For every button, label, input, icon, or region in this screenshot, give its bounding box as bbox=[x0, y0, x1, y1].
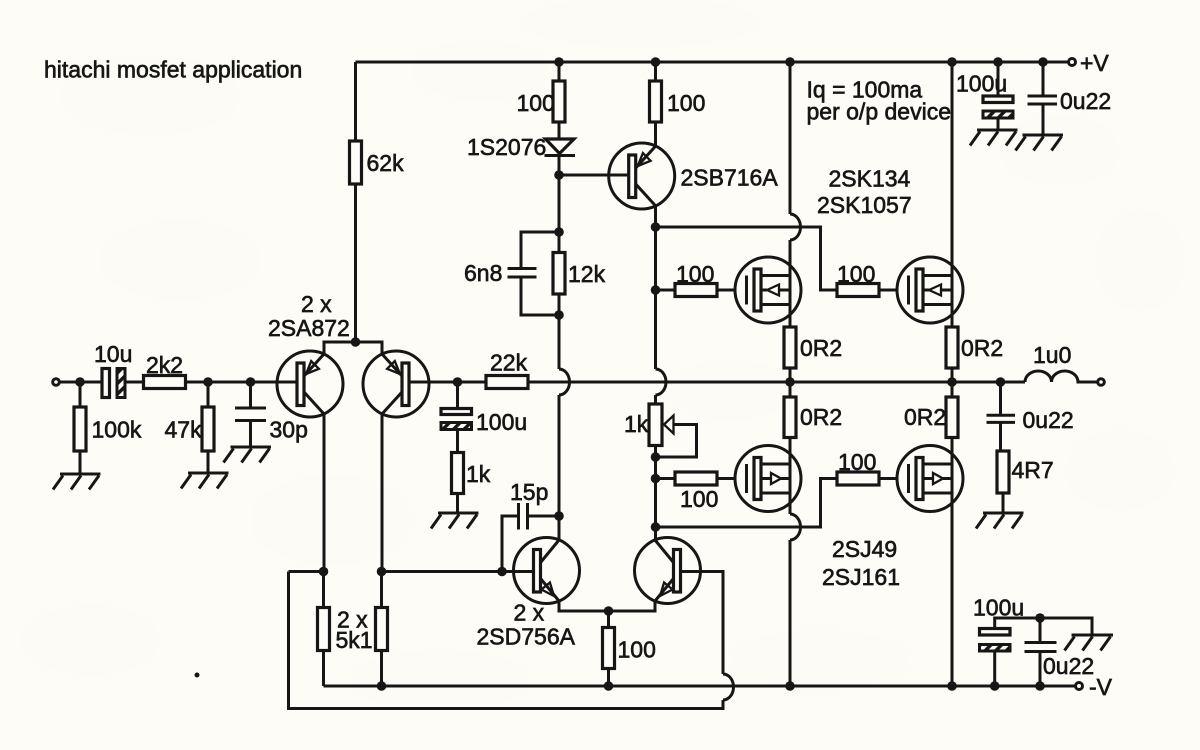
junction dots column 655 bbox=[651, 222, 661, 232]
svg-text:5k1: 5k1 bbox=[336, 627, 373, 653]
inductor 1u0 bbox=[1025, 371, 1097, 382]
node input terminal bbox=[53, 379, 60, 386]
wire TR drain column bbox=[951, 62, 954, 327]
junction dots VAS column bbox=[554, 170, 564, 180]
capacitor 100u at -V electrolytic bbox=[995, 618, 1092, 686]
wire -V bottom rail bbox=[324, 685, 1075, 688]
resistor 1k feedback bbox=[452, 453, 464, 494]
svg-text:15p: 15p bbox=[510, 479, 548, 505]
hop column 655 over output line bbox=[656, 369, 667, 395]
svg-text:47k: 47k bbox=[165, 417, 203, 443]
ground under 1k bbox=[431, 513, 479, 529]
ground under +V 0u22 bbox=[1016, 135, 1064, 151]
resistor 100 (above diode) bbox=[558, 62, 561, 81]
ground under 30p bbox=[224, 447, 272, 463]
svg-text:100: 100 bbox=[680, 486, 718, 512]
resistor 100 gate BR bbox=[837, 472, 879, 485]
wire TR source + resistor 0R2 bbox=[951, 368, 954, 382]
wire collector node to TR mosfet gate (y227) bbox=[656, 227, 838, 290]
resistor 47k bbox=[207, 382, 210, 473]
svg-text:1k: 1k bbox=[624, 411, 649, 437]
mosfet TL 2SK134 bbox=[735, 257, 801, 323]
resistor 100 gate TL bbox=[675, 284, 717, 297]
node -V terminal bbox=[1076, 683, 1083, 690]
capacitor 10u electrolytic bbox=[102, 369, 110, 398]
capacitor 0u22 zobel bbox=[999, 382, 1002, 451]
capacitor 100u at +V electrolytic bbox=[997, 62, 1000, 130]
stray ink dot bbox=[195, 673, 200, 678]
wire TL source + resistor 0R2 bbox=[789, 368, 792, 382]
svg-text:100: 100 bbox=[667, 90, 705, 116]
svg-text:2SD756A: 2SD756A bbox=[477, 624, 576, 650]
mosfet TR 2SK1057 bbox=[897, 257, 963, 323]
svg-text:1k: 1k bbox=[466, 461, 491, 487]
svg-text:62k: 62k bbox=[367, 150, 405, 176]
wire input line left bbox=[60, 381, 103, 384]
svg-text:100: 100 bbox=[676, 261, 714, 287]
ground under +V 100u bbox=[970, 130, 1018, 146]
wire emitter link 2SA872 pair bbox=[324, 342, 382, 354]
resistor 100k bbox=[79, 382, 82, 474]
transistor Q1 2SA872 (left, PNP) bbox=[277, 351, 343, 417]
wire Q5 emitters join bbox=[559, 601, 655, 611]
mosfet BR 2SJ161 bbox=[897, 446, 963, 512]
wire link to BR gate bbox=[656, 479, 838, 528]
wire +V top rail bbox=[356, 61, 1068, 64]
svg-text:22k: 22k bbox=[490, 350, 528, 376]
svg-text:0u22: 0u22 bbox=[1043, 653, 1094, 679]
resistor 100 emitter bbox=[607, 611, 610, 628]
svg-text:2SB716A: 2SB716A bbox=[681, 165, 779, 191]
wire TL mosfet gate bbox=[656, 289, 676, 292]
capacitor 6n8 branch bbox=[521, 232, 559, 315]
resistor 4R7 bbox=[997, 451, 1009, 493]
svg-text:10u: 10u bbox=[94, 341, 132, 367]
transistor 2SB716A (PNP) bbox=[609, 143, 675, 209]
wire BR drain down bbox=[951, 438, 954, 687]
wire BL source + resistor 0R2 bbox=[789, 382, 792, 397]
svg-text:4R7: 4R7 bbox=[1012, 457, 1054, 483]
junction dots -V rail bbox=[377, 681, 387, 691]
svg-text:1S2076: 1S2076 bbox=[467, 134, 546, 160]
junction dot -V cap wire bbox=[1035, 613, 1045, 623]
svg-text:100u: 100u bbox=[476, 409, 527, 435]
svg-text:0u22: 0u22 bbox=[1060, 88, 1111, 114]
svg-text:100u: 100u bbox=[973, 595, 1024, 621]
ground under 47k bbox=[181, 473, 229, 489]
svg-text:100: 100 bbox=[838, 449, 876, 475]
svg-text:6n8: 6n8 bbox=[464, 260, 502, 286]
svg-text:100u: 100u bbox=[956, 71, 1007, 97]
wire 2SB716A base bbox=[559, 174, 629, 177]
svg-text:2k2: 2k2 bbox=[146, 352, 183, 378]
hop VAS column over output line bbox=[559, 369, 570, 395]
svg-text:2SK134: 2SK134 bbox=[829, 166, 911, 192]
resistor 5k1 right bbox=[380, 572, 383, 687]
wire 10u to 2k2 bbox=[126, 381, 144, 384]
junction dots base line bbox=[319, 567, 329, 577]
ground under 4R7 bbox=[976, 513, 1024, 529]
wire 15p node down to Q5L collector bbox=[558, 516, 561, 540]
svg-text:100: 100 bbox=[837, 261, 875, 287]
wire Q5R base link via bottom bbox=[289, 572, 724, 709]
svg-text:2SA872: 2SA872 bbox=[268, 315, 350, 341]
svg-text:-V: -V bbox=[1089, 674, 1113, 700]
junction dots top rail bbox=[554, 57, 564, 67]
junction dots output line bbox=[785, 377, 795, 387]
transistor Q5L 2SD756A (NPN) bbox=[514, 538, 580, 604]
svg-text:2SK1057: 2SK1057 bbox=[817, 192, 912, 218]
capacitor 30p bbox=[249, 382, 252, 447]
trimmer wiper arrow bbox=[664, 416, 674, 434]
svg-text:2 x: 2 x bbox=[301, 291, 332, 317]
svg-text:2SJ161: 2SJ161 bbox=[822, 564, 900, 590]
wire 2SB716A collector down bbox=[654, 206, 657, 540]
mosfet BL 2SJ49 bbox=[735, 446, 801, 512]
svg-text:0R2: 0R2 bbox=[904, 404, 946, 430]
junction dot tail emitters bbox=[351, 337, 361, 347]
resistor 22k bbox=[486, 376, 528, 389]
resistor 100 (2SB716A emitter) bbox=[654, 62, 657, 81]
junction dot emitter node bbox=[604, 606, 614, 616]
svg-text:100k: 100k bbox=[92, 417, 142, 443]
wire 2k2 to Q1 base bbox=[186, 381, 298, 384]
resistor 62k bbox=[350, 141, 362, 184]
hop base link over -V rail bbox=[723, 674, 734, 700]
wire Q1 collector drop bbox=[323, 414, 326, 572]
svg-text:100: 100 bbox=[618, 637, 656, 663]
capacitor 0u22 at -V bbox=[1039, 618, 1042, 686]
wire BL gate bbox=[656, 477, 676, 480]
svg-text:0R2: 0R2 bbox=[961, 335, 1003, 361]
wire TL drain column bbox=[789, 62, 792, 327]
junction dots input line bbox=[75, 377, 85, 387]
trimmer 1k bbox=[649, 404, 662, 446]
diode 1S2076 bbox=[558, 122, 561, 139]
svg-text:0R2: 0R2 bbox=[800, 404, 842, 430]
wire BL drain down with hop over link wire bbox=[789, 438, 792, 687]
capacitor 0u22 at +V bbox=[1042, 62, 1045, 135]
resistor 100 gate TR bbox=[837, 284, 879, 297]
hop TL drain over y227 wire bbox=[790, 214, 801, 240]
transistor Q5R 2SD756A (NPN mirrored) bbox=[635, 538, 701, 604]
wire BR source + resistor 0R2 bbox=[951, 382, 954, 397]
svg-text:12k: 12k bbox=[568, 261, 606, 287]
resistor 12k bbox=[553, 253, 565, 295]
junction dot feedback node bbox=[453, 377, 463, 387]
wire 62k column bbox=[354, 62, 357, 342]
svg-text:2 x: 2 x bbox=[514, 600, 545, 626]
wire VAS column x559 bbox=[558, 175, 561, 540]
svg-text:30p: 30p bbox=[270, 417, 308, 443]
resistor 5k1 left bbox=[322, 572, 325, 687]
svg-text:0R2: 0R2 bbox=[800, 335, 842, 361]
svg-text:per o/p device: per o/p device bbox=[807, 99, 951, 125]
node +V terminal bbox=[1069, 59, 1076, 66]
resistor 2k2 bbox=[144, 376, 186, 389]
ground at -V branch bbox=[1065, 635, 1114, 651]
wire Q2 collector drop bbox=[381, 414, 384, 572]
resistor 100 gate BL bbox=[675, 472, 717, 485]
svg-text:hitachi mosfet application: hitachi mosfet application bbox=[44, 57, 302, 83]
svg-text:1u0: 1u0 bbox=[1033, 342, 1071, 368]
wire 2SB716A emitter to rail bbox=[654, 122, 657, 146]
ground under 100k bbox=[53, 474, 101, 490]
node output terminal bbox=[1098, 379, 1105, 386]
capacitor 15p bbox=[502, 516, 559, 572]
svg-text:+V: +V bbox=[1080, 50, 1109, 76]
transistor Q2 2SA872 (right, PNP mirrored) bbox=[363, 351, 429, 417]
capacitor 100u feedback electrolytic bbox=[456, 382, 459, 453]
svg-text:0u22: 0u22 bbox=[1023, 407, 1074, 433]
wire output line bbox=[528, 381, 1025, 384]
wire base line (collector loads) bbox=[289, 570, 534, 573]
wire Q2 base to feedback node bbox=[409, 381, 486, 384]
svg-text:2SJ49: 2SJ49 bbox=[832, 536, 897, 562]
svg-text:100: 100 bbox=[517, 90, 555, 116]
